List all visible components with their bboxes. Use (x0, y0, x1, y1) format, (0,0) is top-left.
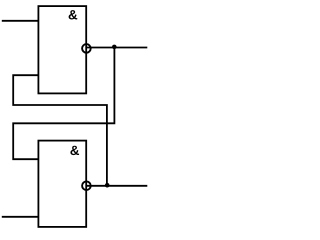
NAND gate U2 output bubble (82, 181, 91, 190)
junction node Q (112, 45, 117, 50)
wire feedback Q-bar to U1 input (13, 75, 107, 186)
wire feedback Q to U2 input (13, 48, 114, 160)
wire S input to U1 pin 1 (2, 20, 39, 22)
wire U1 output Q (86, 47, 147, 49)
junction node Q-bar (105, 183, 110, 188)
NAND gate U1 label & (69, 10, 78, 19)
NAND gate U1 output bubble (82, 44, 91, 53)
NAND gate U1 body (38, 6, 86, 93)
NAND gate U2 label & (70, 146, 79, 155)
wire R input to U2 pin 2 (2, 216, 39, 218)
NAND gate U2 body (38, 141, 86, 227)
wire U2 output Q-bar (86, 185, 147, 187)
